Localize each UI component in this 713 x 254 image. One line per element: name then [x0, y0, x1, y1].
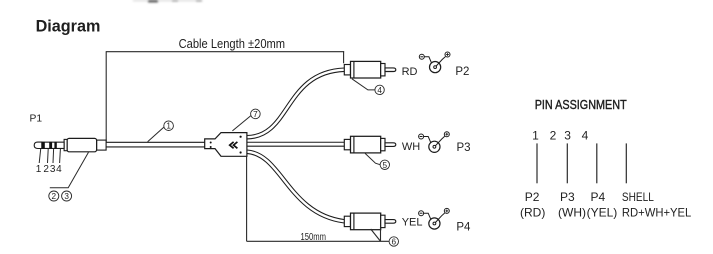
svg-text:5: 5	[383, 161, 388, 170]
svg-text:(WH): (WH)	[558, 205, 586, 219]
jack face icon P3	[419, 132, 450, 153]
svg-text:2: 2	[52, 192, 57, 201]
svg-text:PIN ASSIGNMENT: PIN ASSIGNMENT	[535, 97, 627, 112]
dimension: Cable Length ±20mm	[106, 51, 344, 142]
plug P1 insulator band 3	[54, 142, 56, 149]
callout 2	[49, 191, 59, 201]
svg-text:P1: P1	[30, 114, 43, 125]
plug P1 collar	[64, 139, 67, 150]
callout 2/3 leader	[50, 152, 89, 188]
callout 4 leader	[352, 79, 375, 90]
callout 5 leader	[365, 153, 380, 164]
pin assignment line 1	[536, 143, 538, 183]
svg-text:RD: RD	[402, 66, 418, 78]
RCA plug of P3 branch	[344, 136, 396, 153]
dimension: 150mm	[247, 156, 390, 241]
svg-text:1: 1	[166, 122, 171, 131]
pin 3 leader	[52, 149, 55, 163]
pin 1 leader	[39, 149, 41, 163]
plug P1 strain relief boot	[97, 140, 107, 150]
svg-text:4: 4	[56, 164, 62, 175]
svg-text:P2: P2	[455, 66, 469, 78]
splitter neck dot upper	[210, 142, 212, 144]
callout 3	[62, 191, 72, 201]
wire: middle branch	[247, 142, 345, 147]
svg-text:4: 4	[377, 86, 382, 95]
svg-text:P3: P3	[457, 142, 471, 154]
svg-text:P3: P3	[560, 190, 575, 204]
svg-text:SHELL: SHELL	[622, 190, 654, 204]
svg-text:6: 6	[392, 238, 397, 247]
callout 6	[389, 237, 398, 247]
plug P1 shaft	[42, 142, 64, 148]
wire: main cable from plug to splitter	[106, 142, 206, 148]
callout 7 leader	[232, 116, 251, 131]
svg-text:3: 3	[50, 164, 56, 175]
svg-text:7: 7	[253, 110, 258, 119]
svg-text:1: 1	[36, 164, 42, 175]
callout 5	[380, 160, 389, 170]
svg-text:(RD): (RD)	[520, 205, 545, 219]
splitter logo chevrons	[230, 142, 238, 148]
pin 2 leader	[47, 149, 50, 163]
svg-text:RD+WH+YEL: RD+WH+YEL	[622, 205, 692, 219]
wire: bottom branch	[247, 152, 345, 222]
plug P1 tip	[34, 142, 42, 148]
callout 1	[164, 121, 174, 131]
RCA plug of P4 branch	[344, 213, 396, 230]
pin assignment line 3	[596, 143, 598, 183]
plug P1 insulator band 2	[49, 142, 52, 149]
svg-text:2: 2	[43, 164, 49, 175]
svg-text:2: 2	[550, 128, 557, 142]
svg-text:Diagram: Diagram	[36, 18, 101, 36]
svg-text:3: 3	[564, 128, 571, 142]
cropped text remnant at top edge	[133, 0, 202, 2]
pin assignment line 2	[566, 143, 568, 183]
plug P1 insulator band 1	[42, 142, 45, 149]
svg-text:Cable Length ±20mm: Cable Length ±20mm	[179, 37, 286, 51]
svg-text:(YEL): (YEL)	[587, 205, 618, 219]
pin 4 leader	[59, 149, 62, 163]
splitter molding	[205, 133, 247, 157]
svg-text:4: 4	[582, 128, 589, 142]
svg-text:3: 3	[64, 192, 69, 201]
RCA plug of P2 branch	[344, 61, 396, 78]
svg-text:150mm: 150mm	[301, 232, 327, 243]
svg-text:1: 1	[532, 128, 539, 142]
jack face icon P4	[419, 208, 450, 229]
callout 1 leader	[148, 127, 164, 142]
svg-text:WH: WH	[402, 141, 420, 153]
splitter body dot lower	[240, 151, 242, 153]
svg-text:YEL: YEL	[402, 217, 423, 229]
svg-text:P2: P2	[525, 190, 540, 204]
wire: top branch	[247, 70, 345, 138]
plug P1 body	[67, 138, 97, 151]
svg-text:P4: P4	[591, 190, 606, 204]
svg-text:P4: P4	[456, 221, 471, 233]
splitter neck dot lower	[210, 146, 212, 148]
pin assignment line 4	[625, 143, 627, 183]
splitter body dot upper	[240, 136, 242, 138]
callout 7	[251, 109, 261, 119]
jack face icon P2	[419, 52, 450, 73]
callout 4	[375, 85, 384, 95]
